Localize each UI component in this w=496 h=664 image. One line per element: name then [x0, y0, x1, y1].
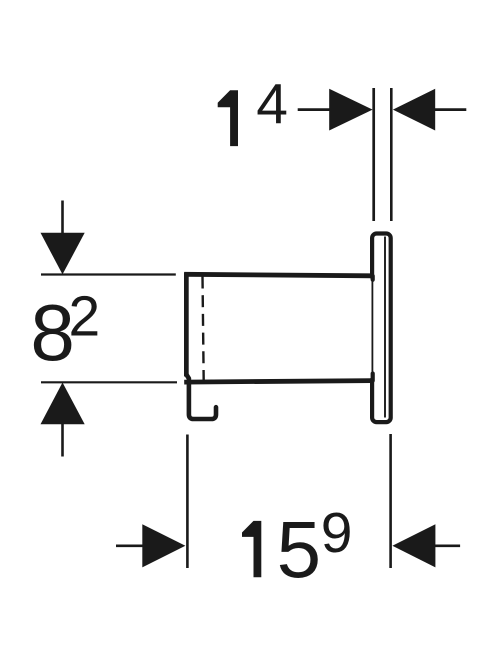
wall plate inner edge line — [384, 237, 386, 418]
hook profile — [186, 375, 216, 420]
body junction tick top — [371, 276, 375, 280]
svg-text:4: 4 — [256, 73, 288, 137]
left extension line top — [41, 273, 176, 275]
body face thin line — [371, 278, 373, 373]
top dimension tail right — [435, 108, 467, 111]
body top edge — [184, 274, 372, 276]
dimension text 15 (bottom, value 15) — [242, 521, 261, 577]
svg-text:9: 9 — [321, 501, 353, 565]
top dimension arrowhead right — [393, 89, 435, 131]
body bottom edge — [184, 381, 372, 383]
wall plate outline — [372, 234, 391, 423]
dashed hidden edge — [203, 277, 204, 383]
body left edge — [184, 273, 189, 377]
svg-text:2: 2 — [69, 284, 101, 348]
top dimension tail left — [298, 108, 331, 111]
bottom dimension arrowhead left — [142, 524, 185, 567]
left dimension arrowhead down — [41, 233, 85, 275]
bottom extension line right (plate rear face) — [389, 434, 392, 568]
svg-text:5: 5 — [277, 505, 322, 594]
top extension line left (plate front face) — [372, 88, 375, 221]
left dimension tail top — [61, 201, 64, 236]
wall plate left edge mask (body overlap) — [369, 278, 375, 378]
body junction tick bottom — [371, 374, 375, 381]
left dimension tail bottom — [61, 424, 64, 457]
top dimension arrowhead left — [329, 89, 372, 131]
bottom extension line left (body front face) — [186, 435, 189, 569]
bottom dimension tail right — [435, 544, 461, 547]
bottom dimension arrowhead right — [392, 524, 435, 567]
left extension line bottom — [41, 381, 177, 383]
bottom dimension tail left — [116, 544, 143, 547]
left dimension arrowhead up — [41, 383, 85, 425]
dimension text 1 (top, value 1) — [218, 90, 238, 146]
top extension line right (plate rear face) — [390, 88, 393, 221]
